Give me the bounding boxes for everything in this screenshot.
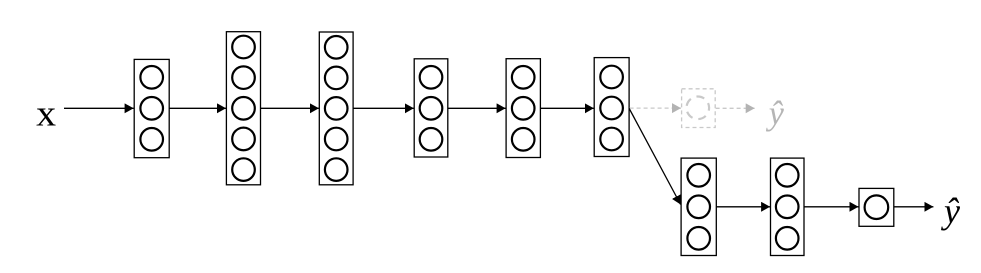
layer L2 (5 neurons)	[226, 32, 260, 185]
arrow layer1 to layer2	[169, 107, 226, 109]
arrow layer5 to layer6	[540, 107, 593, 109]
arrow layer3 to layer4	[353, 107, 414, 109]
arrow layer4 to layer5	[448, 107, 506, 109]
layer L1 (3 neurons)	[134, 59, 169, 157]
skipped layer box (gray dashed, 1 neuron)	[682, 89, 716, 128]
arrow layer8 to output layer	[804, 206, 859, 208]
dashed arrow layer6 to skipped layer (gray)	[630, 107, 681, 109]
svg-text:ŷ: ŷ	[766, 96, 785, 133]
diagonal arrow layer6 to layer7	[629, 108, 681, 204]
svg-text:x: x	[36, 94, 57, 135]
arrow layer2 to layer3	[261, 107, 319, 109]
layer L3 (5 neurons)	[319, 32, 353, 185]
layer L5 (3 neurons)	[506, 59, 540, 158]
arrow output layer to yhat	[894, 206, 934, 208]
arrow layer7 to layer8	[716, 206, 770, 208]
svg-text:ŷ: ŷ	[941, 191, 960, 231]
layer L4 (3 neurons)	[414, 59, 448, 157]
layer L6 (3 neurons)	[594, 58, 629, 157]
dashed arrow skipped layer to gray yhat	[716, 107, 755, 109]
arrow x to layer1	[64, 107, 134, 109]
layer L8 (3 neurons)	[771, 158, 805, 255]
layer L7 (3 neurons)	[681, 158, 716, 255]
output layer (1 neuron)	[859, 188, 894, 226]
